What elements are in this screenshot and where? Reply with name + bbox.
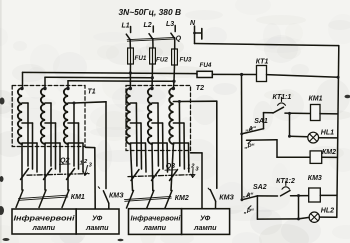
svg-text:лампи: лампи: [85, 223, 109, 232]
svg-text:НL1: НL1: [321, 130, 334, 137]
svg-text:FU4: FU4: [200, 62, 212, 69]
svg-text:Q3: Q3: [166, 163, 175, 170]
svg-text:Q: Q: [176, 36, 182, 43]
svg-text:1: 1: [187, 165, 190, 171]
svg-text:FU1: FU1: [135, 55, 147, 62]
svg-text:FU2: FU2: [156, 56, 168, 63]
svg-text:Інфрачервоні: Інфрачервоні: [14, 214, 76, 223]
svg-text:L2: L2: [144, 22, 152, 29]
svg-text:„Р“: „Р“: [244, 144, 255, 150]
svg-text:КМЗ: КМЗ: [109, 193, 124, 200]
svg-text:3N~50Гц, 380 В: 3N~50Гц, 380 В: [119, 8, 182, 17]
svg-text:КТ1:2: КТ1:2: [276, 178, 295, 185]
svg-text:НL2: НL2: [321, 208, 334, 215]
svg-text:Т2: Т2: [196, 85, 204, 92]
svg-text:Інфрачервоні: Інфрачервоні: [131, 214, 182, 223]
svg-text:1: 1: [80, 161, 83, 167]
svg-text:КМ2: КМ2: [175, 195, 189, 202]
svg-text:L1: L1: [122, 23, 130, 30]
svg-text:КМ1: КМ1: [309, 96, 323, 103]
svg-text:SA2: SA2: [253, 184, 267, 191]
svg-text:КМ1: КМ1: [71, 194, 85, 201]
svg-text:Q2: Q2: [60, 158, 69, 165]
svg-text:FU3: FU3: [180, 56, 192, 63]
svg-text:КТ1:1: КТ1:1: [273, 94, 292, 101]
svg-text:лампи: лампи: [143, 223, 167, 232]
svg-text:L3: L3: [166, 21, 174, 28]
svg-text:„А“: „А“: [245, 127, 256, 133]
svg-text:„Р“: „Р“: [243, 209, 254, 215]
svg-text:КМ2: КМ2: [322, 149, 336, 156]
svg-text:УФ: УФ: [92, 214, 103, 223]
svg-text:КМ3: КМ3: [308, 175, 322, 182]
svg-text:лампи: лампи: [32, 223, 56, 232]
svg-text:SA1: SA1: [254, 118, 268, 125]
svg-text:УФ: УФ: [200, 214, 211, 223]
svg-text:КМЗ: КМЗ: [219, 195, 234, 202]
svg-text:КТ1: КТ1: [256, 59, 269, 66]
svg-text:„А“: „А“: [242, 193, 253, 199]
svg-text:лампи: лампи: [193, 223, 217, 232]
svg-text:Т1: Т1: [88, 89, 96, 96]
